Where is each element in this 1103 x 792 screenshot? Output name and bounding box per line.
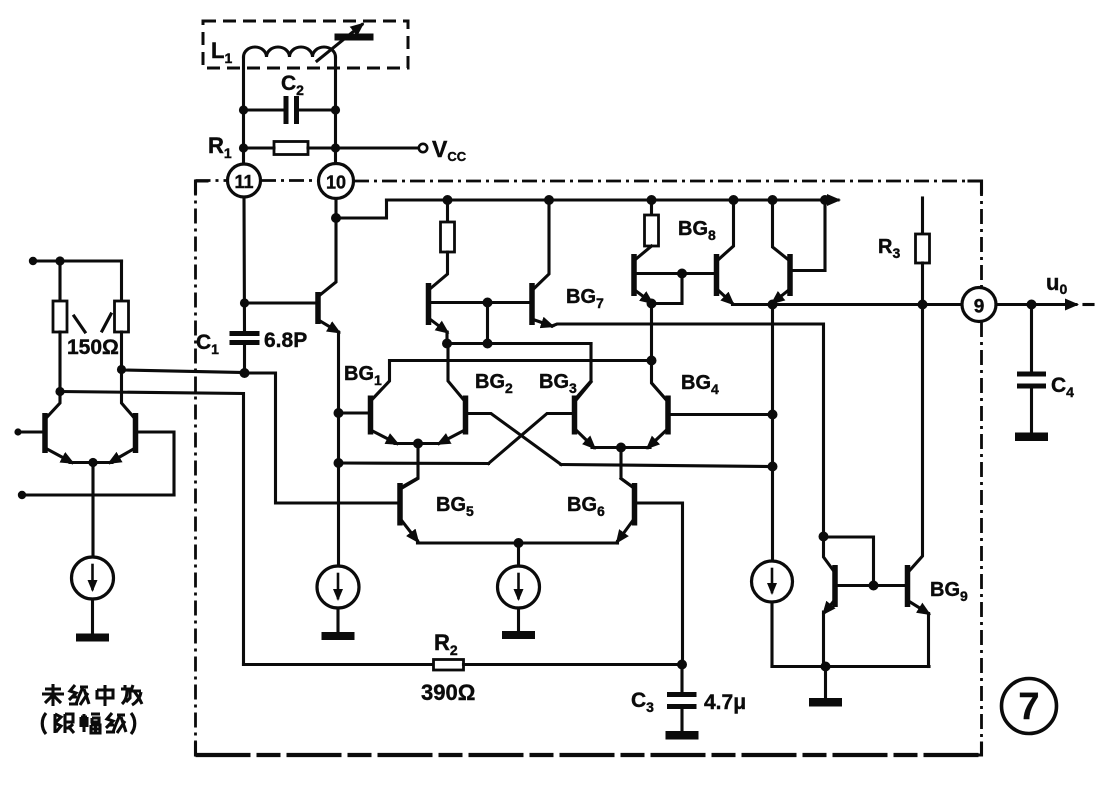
- current source quad left: [317, 566, 359, 608]
- wire R1 left: [244, 146, 275, 149]
- resistor 150-ohm left: [53, 301, 67, 332]
- label pointer tick left: [74, 316, 85, 332]
- transistor BG6 base bar: [632, 483, 638, 526]
- capacitor C4: [1017, 372, 1046, 377]
- transistor BG7 emitter: [535, 320, 553, 326]
- IC boundary top edge (dash-dot): [196, 179, 228, 182]
- node input upper junction: [117, 365, 126, 374]
- transistor BG6 collector: [621, 479, 633, 488]
- transistor BG9 base bar: [905, 565, 911, 607]
- svg-text:7: 7: [1018, 686, 1039, 728]
- wire C2 left: [244, 108, 284, 111]
- transistor left input (base lead): [17, 430, 43, 433]
- wire Tc base to rail: [792, 200, 825, 271]
- transistor M1 emitter: [824, 602, 833, 613]
- node bus base junction: [483, 339, 493, 349]
- transistor BG6 emitter: [618, 521, 633, 542]
- L1 shield dashed box: [203, 21, 408, 68]
- node R1 left junction: [239, 143, 248, 152]
- ground quad left: [322, 632, 355, 640]
- node T0 base junction: [240, 298, 249, 307]
- wire R2 loop bottom: [244, 663, 434, 666]
- pin 9 circle: [962, 288, 996, 322]
- transistor Tb emitter: [719, 291, 733, 304]
- transistor BG9 emitter: [910, 602, 929, 614]
- ground C4: [1015, 433, 1048, 442]
- transistor M1 base bar: [832, 565, 838, 607]
- node y360 bus junction: [647, 356, 657, 366]
- transistor BG1 base bar: [368, 396, 374, 435]
- wire BG7 emitter to mirror: [552, 324, 824, 537]
- resistor 150-ohm right: [115, 301, 129, 332]
- node emitters junction: [88, 458, 97, 467]
- current source quad middle: [498, 566, 540, 608]
- inductor L1 coil: [244, 47, 336, 57]
- transistor D1 base bar: [426, 283, 432, 325]
- wire cross line left: [339, 461, 489, 465]
- resistor R3: [916, 234, 930, 263]
- resistor load1: [441, 222, 455, 252]
- capacitor C2: [284, 96, 289, 124]
- wire pin11 to C1: [242, 197, 246, 331]
- wire mirror ground lead: [824, 667, 827, 700]
- wire BG6 base: [637, 503, 683, 665]
- resistor R2: [434, 660, 464, 671]
- node rail junction Tb collector: [729, 195, 739, 205]
- wire Ta emitter down to y360 bus: [650, 304, 653, 361]
- wire input upper to C1 node: [122, 370, 245, 373]
- wire bus to BG3 collector: [577, 344, 591, 398]
- node pin10 junction: [331, 213, 341, 223]
- wire R3 top stub: [921, 198, 924, 234]
- node BG1 base junction: [334, 408, 344, 418]
- transistor BG4 collector: [653, 384, 666, 399]
- transistor BG7 base bar: [529, 283, 535, 325]
- node C1 bottom junction: [240, 368, 250, 378]
- wire T0 base: [245, 301, 316, 304]
- node BG4 base junction: [768, 410, 778, 420]
- transistor BG1 collector to y360 bus: [373, 361, 652, 400]
- node C4 junction: [1027, 300, 1037, 310]
- transistor BG2 collector: [448, 344, 463, 400]
- transistor Ta collector: [636, 246, 652, 259]
- node R3/BG9 output junction: [918, 300, 928, 310]
- transistor BG3 collector: [577, 382, 591, 399]
- wire BG3 base cross-couple: [489, 414, 573, 464]
- wire current source to ground: [91, 599, 94, 635]
- node Ta emitter junction: [647, 299, 657, 309]
- current source right: [752, 561, 793, 602]
- inductor adjustment arrow: [317, 25, 362, 62]
- transistor left input base bar: [42, 413, 48, 453]
- node cross line right junction: [768, 462, 778, 472]
- wire current source quad left ground lead: [336, 608, 339, 633]
- wire emitters to BG6 collector: [621, 448, 634, 489]
- transistor T0 emitter: [320, 321, 339, 332]
- wire emitters to current source: [91, 463, 94, 558]
- capacitor C1: [230, 331, 260, 336]
- node rail junction Tc base: [820, 195, 830, 205]
- transistor BG4 base bar: [665, 396, 671, 435]
- wire current source quad middle ground lead: [517, 608, 520, 632]
- transistor BG3 emitter: [577, 431, 594, 448]
- transistor M1 collector: [824, 537, 834, 571]
- svg-text:11: 11: [234, 172, 253, 192]
- wire M1 collector-base tie: [824, 537, 874, 586]
- wire right leg of L1 tank: [334, 57, 337, 164]
- node mirror ground junction: [821, 662, 831, 672]
- wire supply rail: [387, 198, 839, 201]
- resistor load2: [645, 215, 659, 246]
- transistor BG9 collector: [910, 305, 923, 571]
- transistor right input base bar: [133, 413, 139, 453]
- transistor D1 emitter: [431, 320, 447, 332]
- node R2/C3/BG6 junction: [677, 660, 687, 670]
- IC boundary corner ticks: [969, 181, 982, 193]
- svg-text:150Ω: 150Ω: [67, 336, 119, 359]
- terminal Vcc open circle: [419, 144, 427, 152]
- transistor Ta emitter: [636, 291, 652, 303]
- node mirror base junction: [869, 581, 879, 591]
- wire C2 right: [300, 108, 336, 111]
- wire base node down to collector bus: [486, 303, 489, 344]
- wire output line: [733, 303, 962, 306]
- wire current source right to bottom bus: [770, 602, 773, 667]
- label limiting stage (Chinese) line2: [42, 713, 135, 734]
- node rail junction load2: [647, 195, 657, 205]
- wire bias bottom stub: [21, 493, 174, 496]
- figure number circle 7: [1002, 679, 1057, 734]
- wire output to terminal: [996, 303, 1076, 306]
- wire load1 to D1: [431, 252, 448, 288]
- wire 150-ohm supply top: [32, 259, 122, 262]
- wire C3 top: [680, 665, 683, 693]
- transistor right input collector: [122, 370, 134, 418]
- svg-text:390Ω: 390Ω: [421, 680, 475, 705]
- transistor Tc base bar: [787, 254, 793, 296]
- wire Ta/Tb base line: [636, 272, 714, 275]
- node 150-ohm top junction: [55, 256, 64, 265]
- wire BG4 base: [670, 413, 773, 416]
- node rail junction BG7: [544, 195, 554, 205]
- wire pin10 to supply rail step: [336, 200, 387, 218]
- svg-text:6.8P: 6.8P: [264, 329, 307, 352]
- svg-text:9: 9: [974, 297, 985, 318]
- node BG3/BG4 emitters junction: [616, 443, 626, 453]
- inductor adjustable core slug bar: [335, 34, 374, 41]
- wire left 150-ohm top lead: [58, 261, 61, 301]
- pin 11 circle: [228, 164, 261, 197]
- node cross line left junction: [334, 458, 344, 468]
- wire BG1 base: [339, 411, 369, 414]
- svg-text:4.7μ: 4.7μ: [704, 691, 746, 714]
- transistor BG2 base bar: [463, 396, 469, 435]
- wire R1 to Vcc terminal: [308, 146, 418, 149]
- transistor BG3 base bar: [572, 396, 578, 435]
- wire emitter-base tie: [652, 274, 683, 304]
- resistor load1 lead: [446, 200, 449, 222]
- wire C3 to ground: [680, 709, 683, 732]
- transistor Tb base bar: [714, 254, 720, 296]
- transistor left input collector: [47, 392, 60, 418]
- capacitor C3: [667, 692, 697, 697]
- node Ta base junction: [677, 269, 687, 279]
- node Tc emitter junction: [768, 300, 778, 310]
- transistor Tc emitter: [773, 291, 788, 303]
- node M1 collector junction: [819, 532, 829, 542]
- wire y360 bus to BG4 collector: [652, 361, 666, 400]
- resistor R1: [274, 142, 308, 155]
- node L1/C2 left junction: [239, 105, 248, 114]
- ground left stage: [76, 634, 109, 642]
- transistor BG5 base bar: [397, 483, 403, 526]
- IC boundary right edge (dash-dot): [980, 181, 983, 287]
- wire C4 top lead: [1030, 305, 1033, 372]
- wire R2 to C3 node: [464, 663, 683, 666]
- transistor right input emitter: [110, 449, 134, 463]
- node input lower junction: [55, 387, 64, 396]
- pin 10 circle: [319, 164, 354, 199]
- node BG1/BG2 emitters junction: [413, 439, 423, 449]
- node L1/C2 right junction: [331, 105, 340, 114]
- wire emitters to BG5 collector: [402, 444, 418, 489]
- wire quad left collector bus: [447, 342, 591, 345]
- transistor BG2 emitter: [439, 431, 463, 444]
- wire R3 bottom: [921, 263, 924, 305]
- current source left stage: [72, 557, 114, 599]
- wire C1 bottom: [243, 345, 246, 373]
- transistor BG4 emitter: [648, 431, 666, 448]
- wire current source quad middle top lead: [517, 543, 520, 566]
- transistor T0 collector: [320, 218, 336, 295]
- node rail junction load1: [443, 195, 453, 205]
- wire left leg of L1 tank: [242, 57, 245, 164]
- wire C1 node to BG5 base: [245, 373, 398, 503]
- wire mirror bottom bus: [772, 665, 929, 668]
- transistor Tb collector: [719, 200, 734, 259]
- wire mirror base line: [837, 584, 906, 587]
- wire right 150-ohm top lead: [120, 261, 123, 301]
- transistor BG5 emitter: [402, 521, 418, 541]
- transistor Ta base bar: [631, 254, 637, 296]
- transistor BG5 collector: [402, 479, 417, 488]
- wire BG5/BG6 emitter line: [418, 541, 618, 543]
- label final IF amplifier stage (Chinese) line1: [42, 684, 142, 706]
- wire C4 to ground: [1030, 389, 1033, 434]
- ground mirror: [809, 698, 842, 707]
- node D1 base junction: [483, 298, 493, 308]
- transistor BG7 collector: [535, 200, 550, 288]
- transistor BG1 emitter: [373, 431, 398, 444]
- wire Tc emitter / current source column: [771, 305, 774, 562]
- svg-text:10: 10: [326, 173, 346, 193]
- node emitter line junction: [514, 538, 524, 548]
- node R1 right junction: [331, 143, 340, 152]
- wire cross line right: [561, 465, 773, 467]
- wire right 150-ohm bottom lead: [120, 332, 123, 370]
- wire left 150-ohm bottom lead: [58, 332, 61, 392]
- wire input lower to R2 loop: [60, 392, 244, 665]
- transistor left input emitter: [47, 449, 72, 463]
- ground quad middle: [502, 631, 535, 639]
- resistor load2 lead: [650, 200, 653, 215]
- node bus emitter junction: [442, 339, 452, 349]
- transistor Tc collector: [773, 200, 788, 259]
- node rail junction Tc collector: [768, 195, 778, 205]
- label pointer tick right: [102, 314, 111, 331]
- wire BG2 base cross-couple: [468, 414, 561, 465]
- transistor T0 bias base bar: [315, 292, 321, 324]
- wire pin10 stem: [334, 199, 337, 219]
- ground C3: [666, 731, 699, 740]
- IC boundary left edge (dash-dot): [194, 181, 197, 756]
- wire right input base bias: [138, 432, 174, 495]
- IC boundary bottom edge (heavy dashed): [196, 753, 982, 757]
- wire D1/BG7 base line: [431, 301, 530, 304]
